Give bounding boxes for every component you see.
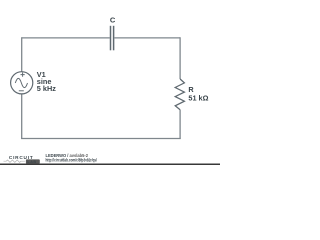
svg-text:C: C bbox=[110, 16, 116, 25]
svg-text:51 kΩ: 51 kΩ bbox=[188, 94, 208, 103]
svg-text:5 kHz: 5 kHz bbox=[37, 84, 56, 93]
svg-text:http://circuitlab.com/c/8fp3v8: http://circuitlab.com/c/8fp3v82r/qs/ bbox=[46, 158, 98, 163]
svg-text:LAB: LAB bbox=[27, 160, 36, 164]
